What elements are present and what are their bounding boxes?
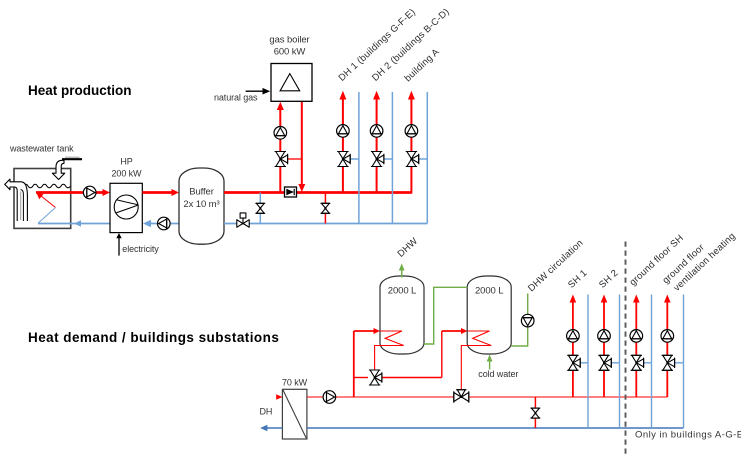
svg-text:electricity: electricity	[122, 244, 159, 254]
svg-text:DHW: DHW	[396, 236, 421, 260]
svg-text:Only in buildings A-G-E: Only in buildings A-G-E	[635, 430, 741, 441]
svg-text:Heat production: Heat production	[28, 83, 132, 98]
svg-text:DH: DH	[260, 407, 273, 417]
svg-text:gas boiler: gas boiler	[269, 34, 309, 45]
svg-text:cold water: cold water	[478, 369, 518, 379]
svg-text:HP: HP	[120, 157, 132, 167]
svg-text:SH 2: SH 2	[597, 268, 621, 291]
svg-text:70 kW: 70 kW	[282, 378, 308, 388]
svg-text:natural gas: natural gas	[214, 93, 258, 103]
svg-text:Heat demand / buildings substa: Heat demand / buildings substations	[28, 330, 279, 345]
svg-text:SH 1: SH 1	[566, 268, 590, 291]
svg-text:Buffer: Buffer	[189, 187, 214, 198]
svg-text:2000 L: 2000 L	[475, 286, 503, 297]
svg-text:200 kW: 200 kW	[112, 169, 143, 179]
svg-text:2x 10 m³: 2x 10 m³	[183, 199, 219, 210]
svg-text:wastewater tank: wastewater tank	[9, 144, 74, 154]
svg-text:600 kW: 600 kW	[274, 46, 306, 57]
svg-text:2000 L: 2000 L	[388, 286, 416, 297]
